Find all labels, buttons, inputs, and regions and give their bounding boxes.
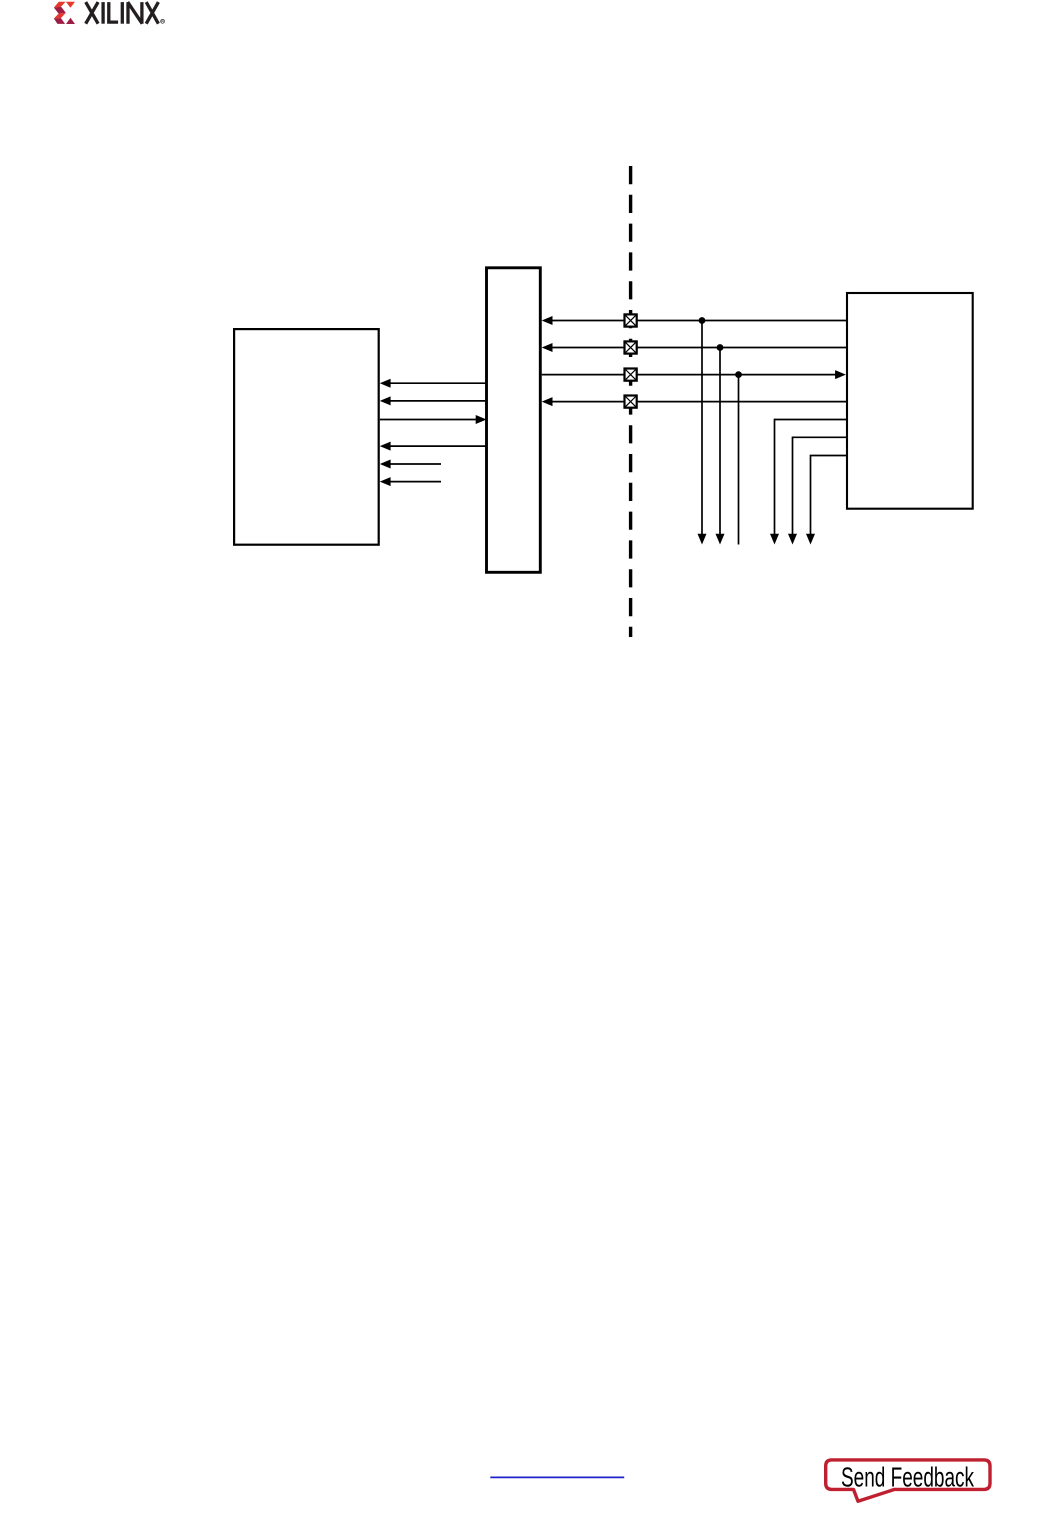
junction dot J1 bbox=[699, 317, 706, 324]
Send Feedback button bbox=[826, 1460, 990, 1501]
middle box bbox=[487, 268, 541, 573]
wire W3 right-arrow bbox=[380, 415, 487, 424]
junction dot J2 bbox=[717, 344, 724, 351]
I/O pad P2 bbox=[625, 341, 637, 353]
FPGA boundary dashed line bbox=[629, 166, 632, 637]
wire W5 stub left-arrow bbox=[380, 460, 441, 469]
junction dot J3 bbox=[735, 371, 742, 378]
wire W6 stub left-arrow bbox=[380, 477, 441, 486]
wire V6 elbow down-arrow bbox=[806, 456, 846, 545]
I/O pad P1 bbox=[625, 314, 637, 326]
wire W4 left-arrow bbox=[380, 442, 486, 451]
wire V5 elbow down-arrow bbox=[788, 437, 846, 544]
wire V3 plain bbox=[738, 375, 740, 545]
left box bbox=[234, 329, 379, 545]
I/O pad P3 bbox=[625, 369, 637, 381]
wire V2 down-arrow bbox=[716, 348, 725, 545]
right box bbox=[847, 293, 973, 509]
wire R4 left-arrow bbox=[542, 397, 846, 406]
wire V1 down-arrow bbox=[698, 321, 707, 545]
registered trademark symbol bbox=[161, 19, 165, 23]
wire V4 elbow down-arrow bbox=[770, 420, 846, 545]
svg-text:Send Feedback: Send Feedback bbox=[841, 1462, 974, 1493]
wire W2 left-arrow bbox=[380, 396, 486, 405]
wire R1 left-arrow bbox=[542, 316, 846, 325]
wire W1 left-arrow bbox=[380, 379, 486, 388]
Xilinx wordmark XILINX bbox=[86, 2, 159, 24]
Xilinx logo mark bbox=[54, 2, 75, 24]
wire R3 right-arrow bbox=[542, 370, 846, 379]
hyperlink underline bbox=[490, 1476, 624, 1478]
I/O pad P4 bbox=[625, 396, 637, 408]
wire R2 left-arrow bbox=[542, 343, 846, 352]
